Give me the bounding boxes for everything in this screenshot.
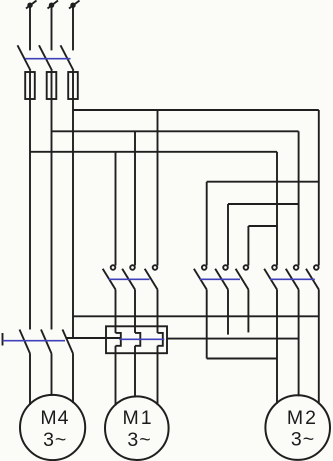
svg-text:M1: M1 [122,407,153,429]
svg-text:3~: 3~ [43,429,67,451]
svg-text:M2: M2 [287,407,318,429]
svg-text:3~: 3~ [127,429,151,451]
svg-text:3~: 3~ [291,429,315,451]
svg-text:M4: M4 [40,407,69,429]
